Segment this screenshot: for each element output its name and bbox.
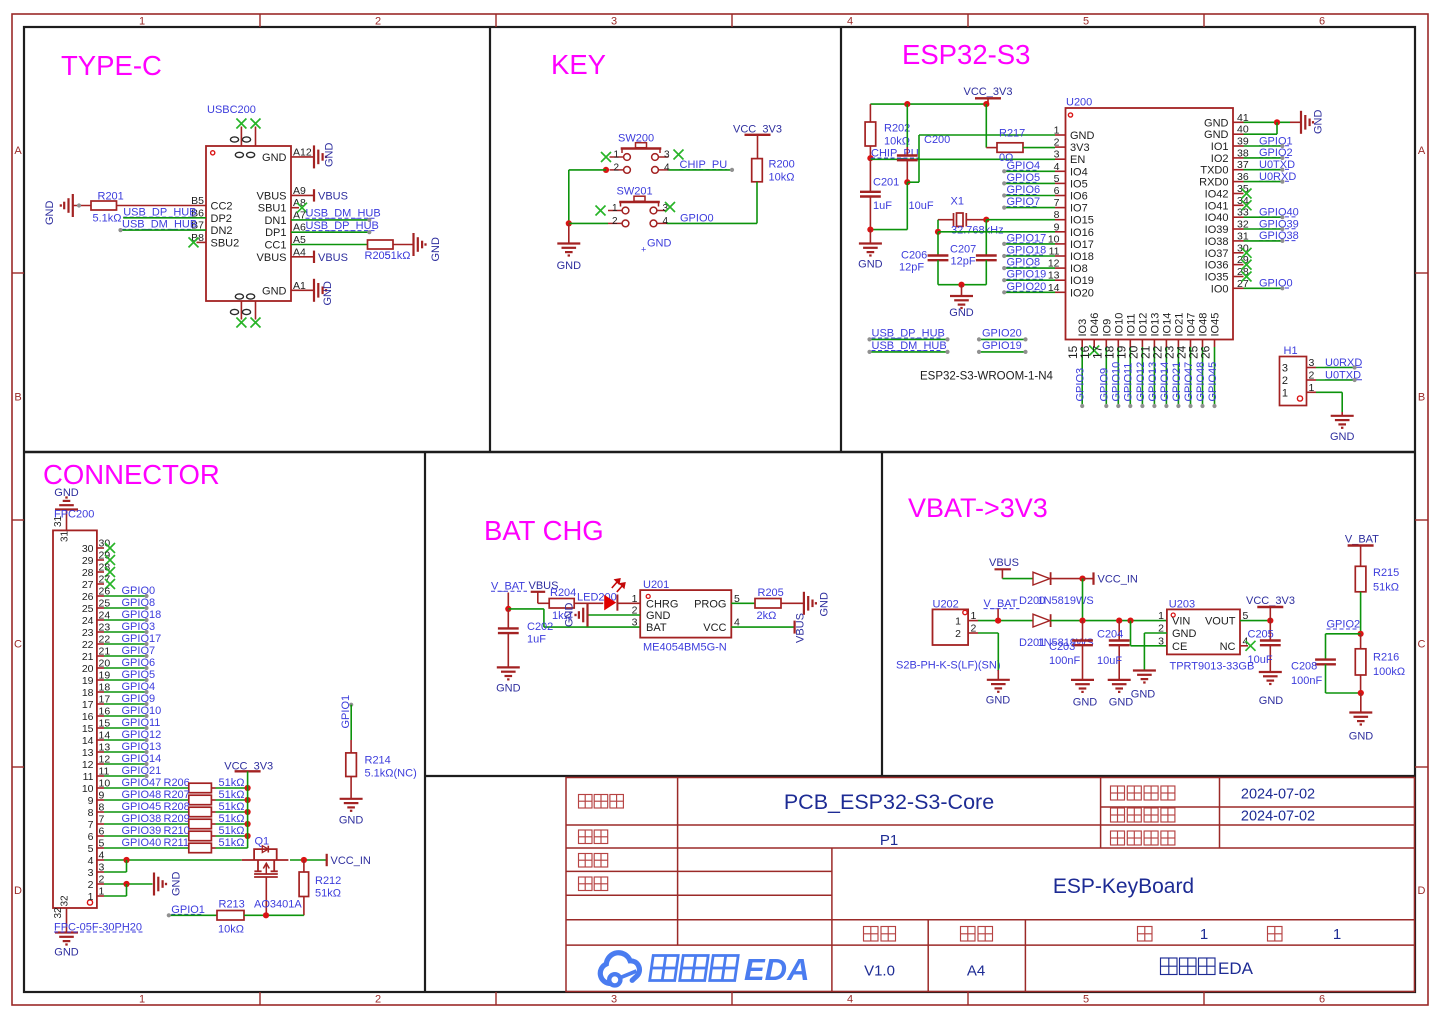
capacitor C203 100nF bbox=[1082, 621, 1084, 641]
svg-text:10uF: 10uF bbox=[1097, 655, 1122, 667]
svg-text:IO48: IO48 bbox=[1198, 313, 1210, 337]
svg-text:IO14: IO14 bbox=[1161, 313, 1173, 337]
svg-text:GPIO10: GPIO10 bbox=[1111, 362, 1123, 402]
svg-text:4: 4 bbox=[663, 216, 669, 227]
wire GPIO20 bbox=[1004, 291, 1055, 293]
section divider lines bbox=[489, 27, 491, 452]
svg-text:12pF: 12pF bbox=[951, 256, 976, 268]
svg-text:GND: GND bbox=[986, 695, 1011, 707]
ground GND at pin A12 bbox=[314, 145, 326, 168]
wire FPC pin 5 to R211 bbox=[104, 847, 189, 849]
svg-text:IO11: IO11 bbox=[1125, 313, 1137, 336]
wire D200 to VCC_IN node bbox=[1051, 578, 1083, 580]
wire pin41 GND to ground bbox=[1244, 121, 1291, 123]
wire EN net to pin 3 bbox=[870, 158, 1055, 160]
svg-text:21: 21 bbox=[82, 651, 94, 663]
wire pin A7 USB_DM_HUB bbox=[291, 219, 369, 221]
svg-text:GPIO47: GPIO47 bbox=[1183, 362, 1195, 402]
U200 pin 37 TXD0 bbox=[1233, 169, 1244, 171]
svg-text:1: 1 bbox=[1158, 610, 1164, 622]
no-connect X on USBC200 top shield pins bbox=[236, 119, 246, 129]
ground GND at U203 pin2 bbox=[1133, 671, 1156, 683]
junction dot C201 bottom GND bbox=[867, 227, 873, 233]
wire GPIO1 bbox=[1244, 145, 1283, 147]
U200 pin 18 IO10 bbox=[1117, 340, 1119, 348]
title label create date (CJK) bbox=[1111, 808, 1175, 822]
junction dot pullup rail pin 10 bbox=[245, 785, 251, 791]
svg-text:GND: GND bbox=[262, 285, 287, 297]
FPC200 pin 32 stub bbox=[66, 908, 68, 933]
svg-text:KEY: KEY bbox=[551, 49, 606, 80]
U200 pin 29 IO36 bbox=[1233, 264, 1244, 266]
svg-text:ESP-KeyBoard: ESP-KeyBoard bbox=[1053, 875, 1194, 898]
U200 pin 40 GND bbox=[1233, 133, 1244, 135]
U200 pin 25 IO48 bbox=[1202, 340, 1204, 348]
U200 pin 21 IO13 bbox=[1153, 340, 1155, 348]
svg-text:32: 32 bbox=[59, 895, 70, 907]
svg-text:29: 29 bbox=[82, 555, 94, 567]
svg-text:IO4: IO4 bbox=[1070, 166, 1088, 178]
svg-text:GND: GND bbox=[262, 152, 287, 164]
junction dot crystal right IO15 bbox=[983, 217, 989, 223]
resistor R202 10k pullup bbox=[869, 104, 871, 122]
svg-text:1uF: 1uF bbox=[527, 634, 546, 646]
no-connect X on U203 NC pin bbox=[1240, 645, 1248, 647]
wire V_BAT down bbox=[507, 593, 509, 609]
junction dot pullup rail pin 7 bbox=[245, 821, 251, 827]
svg-text:13: 13 bbox=[82, 747, 94, 759]
svg-text:GPIO1: GPIO1 bbox=[340, 695, 352, 729]
title block grid lines bbox=[566, 824, 1415, 826]
wire crystal left to pin 9 IO16 bbox=[938, 231, 1055, 233]
wire FPC pin 6 to R210 bbox=[104, 835, 189, 837]
svg-text:3: 3 bbox=[88, 867, 94, 879]
svg-text:D: D bbox=[1418, 885, 1426, 897]
ground GND at U201 pin2 bbox=[576, 604, 588, 627]
wire R213 to Q1 gate and R212 bbox=[244, 914, 304, 916]
net stub GPIO1 vertical at R214 bbox=[349, 703, 353, 707]
svg-text:GND: GND bbox=[496, 683, 521, 695]
svg-text:GPIO45: GPIO45 bbox=[1207, 362, 1219, 402]
svg-text:IO7: IO7 bbox=[1070, 203, 1088, 215]
svg-text:1: 1 bbox=[1282, 387, 1288, 399]
svg-text:10uF: 10uF bbox=[909, 200, 934, 212]
svg-text:8: 8 bbox=[88, 807, 94, 819]
svg-text:3: 3 bbox=[1282, 363, 1288, 375]
wire GPIO9 bbox=[104, 703, 147, 705]
svg-text:EDA: EDA bbox=[1218, 959, 1254, 978]
svg-text:10kΩ: 10kΩ bbox=[218, 924, 244, 936]
ground GND at FPC pin2 bbox=[154, 873, 166, 896]
svg-text:27: 27 bbox=[82, 579, 94, 591]
wire USB_DP_HUB to pin B6 bbox=[123, 217, 206, 219]
no-connect X on U200 right pin bbox=[1242, 200, 1252, 210]
svg-text:USB_DP_HUB: USB_DP_HUB bbox=[306, 220, 379, 232]
svg-text:IO46: IO46 bbox=[1089, 313, 1101, 337]
svg-text:GND: GND bbox=[1204, 117, 1229, 129]
no-connect X on FPC200 pin 29 bbox=[105, 555, 115, 565]
svg-text:51kΩ: 51kΩ bbox=[1373, 582, 1399, 594]
svg-text:IO39: IO39 bbox=[1205, 224, 1229, 236]
svg-text:GPIO48: GPIO48 bbox=[1195, 362, 1207, 402]
svg-text:2kΩ: 2kΩ bbox=[757, 610, 777, 622]
U200 pin 9 IO16 bbox=[1055, 231, 1066, 233]
logo JLCEDA cloud icon bbox=[600, 953, 639, 984]
wire GPIO19 bbox=[1004, 279, 1055, 281]
wire GPIO19 stub bbox=[979, 351, 1026, 353]
U200 pin 24 IO47 bbox=[1190, 340, 1192, 348]
wire crystal ground rail bbox=[938, 284, 986, 286]
wire FPC pin 9 to R207 bbox=[104, 799, 189, 801]
svg-text:2: 2 bbox=[613, 162, 619, 173]
wire 3V3 rail bbox=[870, 103, 986, 105]
svg-text:IO45: IO45 bbox=[1210, 313, 1222, 337]
svg-text:14: 14 bbox=[82, 735, 94, 747]
svg-text:V_BAT: V_BAT bbox=[1345, 534, 1379, 546]
diode D201 1N5819WS bbox=[1033, 614, 1050, 627]
svg-text:26: 26 bbox=[82, 591, 94, 603]
U200 pin 19 IO11 bbox=[1129, 340, 1131, 348]
wire U0RXD bbox=[1244, 181, 1283, 183]
ground GND below H1 bbox=[1331, 416, 1354, 428]
ground GND below R216 bbox=[1360, 693, 1362, 713]
U200 pin 5 IO5 bbox=[1055, 182, 1066, 184]
title label size (CJK) bbox=[961, 927, 993, 942]
junction dot R216 bottom bbox=[1358, 690, 1364, 696]
wire U0TXD bbox=[1316, 379, 1355, 381]
wire GPIO0 bbox=[1244, 287, 1283, 289]
svg-text:SBU1: SBU1 bbox=[258, 203, 287, 215]
junction dot left rail bbox=[566, 220, 572, 226]
junction dot crystal left IO16 bbox=[935, 229, 941, 235]
svg-text:100kΩ: 100kΩ bbox=[1373, 666, 1405, 678]
svg-text:9: 9 bbox=[1054, 221, 1060, 233]
U200 pin 36 RXD0 bbox=[1233, 181, 1244, 183]
svg-text:SBU2: SBU2 bbox=[211, 237, 240, 249]
wire U201 GND pin to ground bbox=[588, 614, 641, 616]
svg-text:5: 5 bbox=[1083, 994, 1089, 1006]
svg-text:C208: C208 bbox=[1291, 661, 1317, 673]
svg-text:GND: GND bbox=[1172, 628, 1197, 640]
svg-text:IO37: IO37 bbox=[1205, 248, 1229, 260]
wire R205 to ground bbox=[393, 244, 414, 246]
svg-text:30: 30 bbox=[82, 543, 94, 555]
ground GND right of U200 bbox=[1301, 111, 1313, 134]
svg-text:IO21: IO21 bbox=[1173, 313, 1185, 337]
SW201 pin stubs bbox=[608, 210, 622, 212]
wire GPIO18 bbox=[104, 619, 147, 621]
svg-text:VBUS: VBUS bbox=[795, 613, 807, 643]
svg-text:2: 2 bbox=[1054, 137, 1060, 149]
capacitor C205 10uF bbox=[1269, 621, 1271, 641]
svg-text:V1.0: V1.0 bbox=[864, 963, 895, 980]
no-connect X on U200 right pin bbox=[1242, 260, 1252, 270]
svg-text:DP1: DP1 bbox=[265, 227, 286, 239]
svg-text:26: 26 bbox=[1199, 345, 1213, 359]
wire and net label GPIO14 bbox=[1165, 347, 1167, 406]
svg-text:C202: C202 bbox=[527, 621, 553, 633]
resistor R200 10k bbox=[752, 159, 763, 182]
svg-text:IO12: IO12 bbox=[1137, 313, 1149, 337]
U200 pin 2 3V3 bbox=[1055, 146, 1066, 148]
wire pin A1 to ground bbox=[291, 289, 314, 291]
title label drawn by (CJK) bbox=[579, 854, 608, 868]
svg-text:31: 31 bbox=[53, 515, 64, 527]
U200 pin 4 IO4 bbox=[1055, 170, 1066, 172]
svg-text:2: 2 bbox=[612, 216, 618, 227]
svg-text:1: 1 bbox=[612, 203, 618, 214]
svg-text:GND: GND bbox=[647, 238, 672, 250]
svg-text:R201: R201 bbox=[98, 191, 124, 203]
wire GPIO20 stub bbox=[979, 338, 1026, 340]
USBC200 bottom shield stubs and pads bbox=[240, 301, 242, 320]
resistor R216 100k bbox=[1360, 634, 1362, 649]
junction dot V_BAT bbox=[995, 618, 1001, 624]
svg-text:5.1kΩ: 5.1kΩ bbox=[93, 213, 122, 225]
svg-text:D: D bbox=[14, 885, 22, 897]
connector FPC200 body bbox=[53, 530, 97, 908]
U200 pin 26 IO45 bbox=[1214, 340, 1216, 348]
svg-text:C204: C204 bbox=[1097, 629, 1123, 641]
svg-text:IO16: IO16 bbox=[1070, 227, 1094, 239]
svg-text:X1: X1 bbox=[951, 196, 964, 208]
wire pin A5 CC1 to R205 bbox=[291, 244, 368, 246]
wire R215 to GPIO2 node bbox=[1360, 592, 1362, 634]
svg-text:3: 3 bbox=[1158, 635, 1164, 647]
U200 pin 38 IO2 bbox=[1233, 157, 1244, 159]
svg-text:GPIO3: GPIO3 bbox=[1075, 368, 1087, 402]
capacitor C201 1uF on EN bbox=[869, 159, 871, 192]
wire pin40 GND up to junction bbox=[1244, 133, 1278, 135]
wire and net label GPIO3 bbox=[1081, 347, 1083, 406]
wire and net label GPIO10 bbox=[1117, 347, 1119, 406]
junction dot EN node bbox=[867, 155, 873, 161]
power flag VBUS at pin A4 bbox=[291, 256, 314, 258]
wire U0RXD bbox=[1316, 367, 1355, 369]
svg-text:R204: R204 bbox=[550, 587, 576, 599]
svg-text:IO15: IO15 bbox=[1070, 215, 1094, 227]
wire GPIO2 node to C208 bbox=[1326, 633, 1361, 635]
wire GPIO38 bbox=[1244, 240, 1283, 242]
wire GND net from pin1 bbox=[919, 134, 1055, 136]
svg-text:A: A bbox=[14, 145, 22, 157]
svg-text:NC: NC bbox=[1220, 641, 1236, 653]
svg-text:BAT CHG: BAT CHG bbox=[484, 515, 604, 546]
svg-text:GND: GND bbox=[819, 592, 831, 617]
title label update date (CJK) bbox=[1111, 786, 1175, 800]
wire R201 to pin B5 bbox=[117, 205, 207, 207]
svg-text:7: 7 bbox=[88, 819, 94, 831]
svg-text:GND: GND bbox=[1131, 689, 1156, 701]
svg-text:IO17: IO17 bbox=[1070, 239, 1094, 251]
wire GPIO17 bbox=[1004, 243, 1055, 245]
U200 pin 28 IO35 bbox=[1233, 276, 1244, 278]
title value JLC EDA (CJK+EDA) bbox=[1161, 958, 1216, 975]
svg-text:IO19: IO19 bbox=[1070, 275, 1094, 287]
wire GPIO12 bbox=[104, 739, 147, 741]
svg-text:PROG: PROG bbox=[694, 598, 726, 610]
svg-text:C207: C207 bbox=[950, 244, 976, 256]
title label sheet page (CJK) bbox=[579, 830, 608, 844]
svg-text:GND: GND bbox=[1070, 130, 1095, 142]
svg-text:ME4054BM5G-N: ME4054BM5G-N bbox=[643, 642, 727, 654]
wire VOUT to VCC_3V3 bbox=[1240, 620, 1270, 622]
svg-text:R202: R202 bbox=[884, 123, 910, 135]
svg-text:C203: C203 bbox=[1049, 641, 1075, 653]
svg-text:VCC_IN: VCC_IN bbox=[1098, 573, 1138, 585]
svg-text:ESP32-S3-WROOM-1-N4: ESP32-S3-WROOM-1-N4 bbox=[920, 371, 1054, 383]
diode D200 1N5819WS bbox=[1033, 572, 1050, 585]
svg-text:IO38: IO38 bbox=[1205, 236, 1229, 248]
wire and net label GPIO11 bbox=[1129, 347, 1131, 406]
wire GPIO3 bbox=[104, 631, 147, 633]
svg-text:P1: P1 bbox=[880, 832, 898, 849]
U200 pin 20 IO12 bbox=[1141, 340, 1143, 348]
svg-text:C206: C206 bbox=[901, 250, 927, 262]
svg-text:IO18: IO18 bbox=[1070, 251, 1094, 263]
svg-text:DP2: DP2 bbox=[211, 213, 232, 225]
svg-text:4: 4 bbox=[847, 994, 853, 1006]
svg-text:5: 5 bbox=[1083, 16, 1089, 28]
ground GND below crystal caps bbox=[961, 285, 963, 296]
svg-text:32: 32 bbox=[53, 907, 64, 919]
svg-text:GND: GND bbox=[1259, 695, 1284, 707]
svg-text:BAT: BAT bbox=[646, 622, 667, 634]
svg-text:IO35: IO35 bbox=[1205, 272, 1229, 284]
title block outline bbox=[566, 778, 1415, 992]
svg-text:GND: GND bbox=[557, 260, 582, 272]
svg-text:1: 1 bbox=[632, 593, 638, 605]
title label page (CJK) bbox=[1138, 927, 1153, 942]
svg-text:S2B-PH-K-S(LF)(SN): S2B-PH-K-S(LF)(SN) bbox=[896, 660, 1001, 672]
svg-text:12pF: 12pF bbox=[899, 262, 924, 274]
svg-text:2: 2 bbox=[955, 628, 961, 640]
svg-text:IO6: IO6 bbox=[1070, 191, 1088, 203]
svg-text:1uF: 1uF bbox=[873, 200, 892, 212]
power flag VCC_IN bbox=[326, 854, 328, 866]
wire pin A6 USB_DP_HUB bbox=[291, 231, 369, 233]
no-connect X on FPC200 pin 30 bbox=[105, 543, 115, 553]
svg-text:2024-07-02: 2024-07-02 bbox=[1241, 809, 1315, 825]
svg-text:IO47: IO47 bbox=[1186, 313, 1198, 337]
svg-text:VBUS: VBUS bbox=[318, 190, 348, 202]
USBC200 top shield stubs and pads bbox=[240, 127, 242, 147]
svg-text:H1: H1 bbox=[1284, 345, 1298, 357]
svg-text:20: 20 bbox=[82, 663, 94, 675]
wire CE loop to VIN bbox=[1130, 621, 1132, 646]
svg-text:CONNECTOR: CONNECTOR bbox=[43, 459, 220, 490]
wire FPC pin1 up to pin2 wire bbox=[104, 895, 127, 897]
svg-text:23: 23 bbox=[82, 627, 94, 639]
U200 pin 22 IO14 bbox=[1165, 340, 1167, 348]
wire GPIO1 to R213 bbox=[169, 914, 217, 916]
wire and net label GPIO9 bbox=[1105, 347, 1107, 406]
junction dots on VCC_IN wire bbox=[123, 857, 129, 863]
svg-text:IO10: IO10 bbox=[1113, 313, 1125, 337]
svg-text:USB_DM_HUB: USB_DM_HUB bbox=[122, 219, 197, 231]
wire GPIO14 bbox=[104, 763, 147, 765]
wire GPIO18 bbox=[1004, 255, 1055, 257]
U200 pin 34 IO41 bbox=[1233, 204, 1244, 206]
svg-text:9: 9 bbox=[88, 795, 94, 807]
svg-text:6: 6 bbox=[1319, 16, 1325, 28]
svg-text:15: 15 bbox=[82, 723, 94, 735]
U200 pin 16 IO46 bbox=[1093, 340, 1095, 348]
svg-text:VBAT->3V3: VBAT->3V3 bbox=[908, 493, 1048, 523]
no-connect X on U200 right pin bbox=[1242, 248, 1252, 258]
wire GPIO21 bbox=[104, 775, 147, 777]
U200 pin 8 IO15 bbox=[1055, 219, 1066, 221]
junction dot pullup rail pin 6 bbox=[245, 833, 251, 839]
wire GND to R201 bbox=[73, 205, 91, 207]
svg-text:6: 6 bbox=[88, 831, 94, 843]
svg-text:IO13: IO13 bbox=[1149, 313, 1161, 337]
no-connect X on FPC200 pin 28 bbox=[105, 567, 115, 577]
svg-text:24: 24 bbox=[82, 615, 94, 627]
wire GPIO7 bbox=[104, 655, 147, 657]
svg-text:2024-07-02: 2024-07-02 bbox=[1241, 787, 1315, 803]
svg-text:28: 28 bbox=[82, 567, 94, 579]
wire GPIO8 bbox=[104, 607, 147, 609]
U200 pin 14 IO20 bbox=[1055, 291, 1066, 293]
svg-text:3: 3 bbox=[1054, 149, 1060, 161]
power flag VCC_IN at D200 bbox=[1083, 578, 1094, 580]
U200 pin 30 IO37 bbox=[1233, 252, 1244, 254]
U200 pin 11 IO18 bbox=[1055, 255, 1066, 257]
wire FPC pin 7 to R209 bbox=[104, 823, 189, 825]
svg-text:12: 12 bbox=[82, 759, 94, 771]
wire H1 pin1 to ground bbox=[1316, 391, 1342, 393]
svg-text:3V3: 3V3 bbox=[1070, 142, 1090, 154]
svg-text:31: 31 bbox=[59, 530, 70, 542]
svg-text:GND: GND bbox=[54, 947, 79, 959]
junction dot pullup rail pin 9 bbox=[245, 797, 251, 803]
svg-text:CHRG: CHRG bbox=[646, 598, 678, 610]
wire and net label GPIO13 bbox=[1153, 347, 1155, 406]
no-connect X on U200 right pin bbox=[1242, 272, 1252, 282]
svg-text:2: 2 bbox=[375, 994, 381, 1006]
svg-text:2: 2 bbox=[375, 16, 381, 28]
wire V_BAT node to BAT pin bbox=[508, 608, 544, 610]
ground GND at R201 left bbox=[61, 194, 73, 217]
power flag VBUS rotated at U201 VCC bbox=[793, 621, 795, 634]
svg-text:11: 11 bbox=[83, 771, 94, 783]
svg-text:VBUS: VBUS bbox=[989, 557, 1019, 569]
svg-text:PCB_ESP32-S3-Core: PCB_ESP32-S3-Core bbox=[784, 790, 994, 814]
svg-text:GND: GND bbox=[171, 872, 183, 897]
svg-text:VBUS: VBUS bbox=[257, 190, 287, 202]
U200 pin 41 GND bbox=[1233, 121, 1244, 123]
svg-text:VCC_IN: VCC_IN bbox=[331, 855, 371, 867]
svg-text:1N5819WS: 1N5819WS bbox=[1038, 595, 1094, 607]
capacitor C202 1uF bbox=[507, 609, 509, 629]
wire pin A12 to ground bbox=[291, 156, 314, 158]
svg-text:IO3: IO3 bbox=[1077, 319, 1089, 337]
svg-text:GND: GND bbox=[1109, 697, 1134, 709]
junction dot SW200 pin2 bbox=[603, 167, 609, 173]
svg-text:GND: GND bbox=[430, 237, 442, 262]
svg-text:CE: CE bbox=[1172, 641, 1187, 653]
svg-text:R200: R200 bbox=[769, 159, 795, 171]
resistor R205 5.1k bbox=[368, 240, 394, 249]
no-connect X on FPC200 pin 27 bbox=[105, 579, 115, 589]
wire SW201 pin2 to rail bbox=[569, 222, 608, 224]
svg-text:GPIO9: GPIO9 bbox=[1099, 368, 1111, 402]
svg-text:C: C bbox=[1418, 639, 1426, 651]
no-connect X on U200 right pin bbox=[1242, 189, 1252, 199]
svg-text:IO0: IO0 bbox=[1211, 283, 1229, 295]
ground GND below KEY rail bbox=[568, 223, 570, 243]
